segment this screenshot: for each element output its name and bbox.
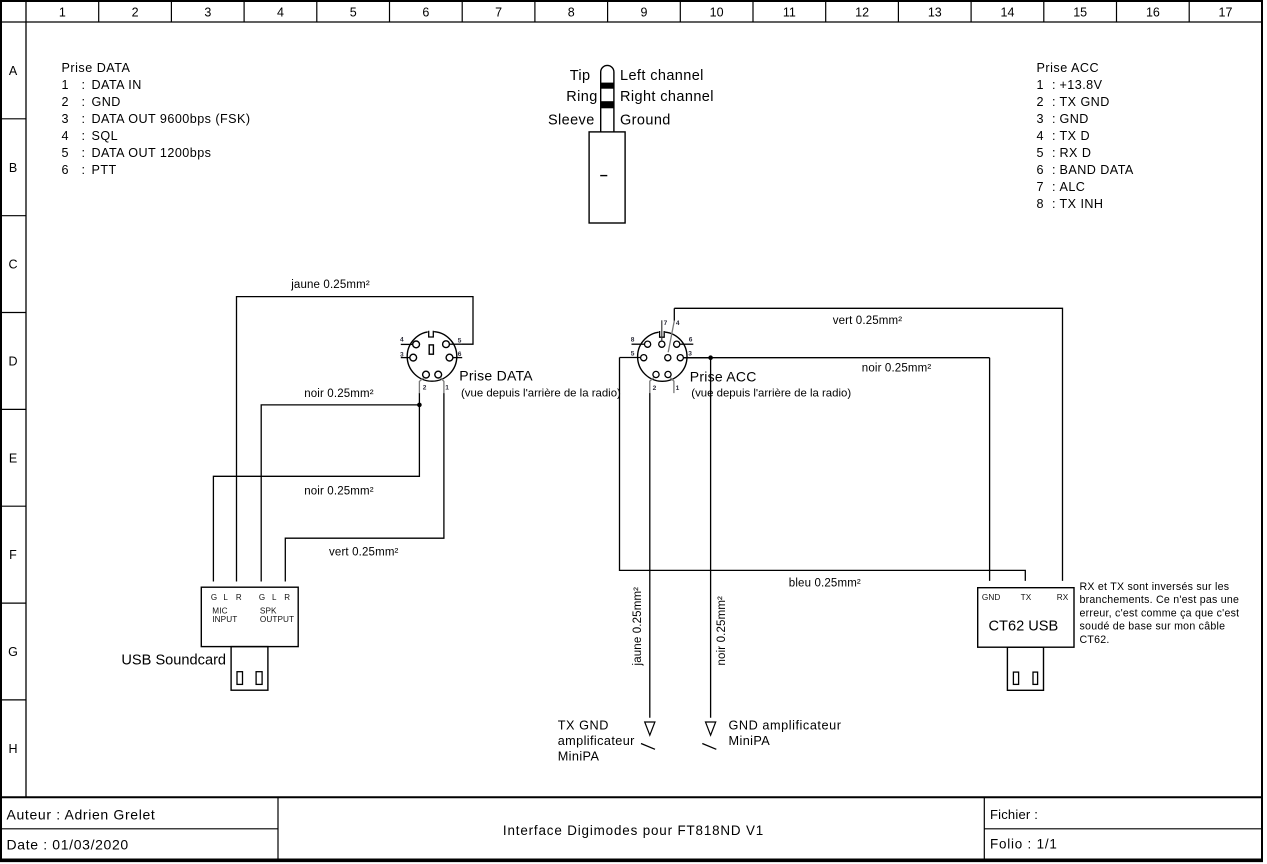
- svg-text:jaune 0.25mm²: jaune 0.25mm²: [290, 279, 370, 291]
- svg-text:RX: RX: [1057, 593, 1069, 602]
- svg-text:1: 1: [676, 385, 680, 392]
- svg-text:noir 0.25mm²: noir 0.25mm²: [304, 388, 374, 400]
- svg-text:7: 7: [664, 320, 668, 327]
- svg-text:8: 8: [568, 6, 575, 20]
- svg-text:2: 2: [653, 385, 657, 392]
- svg-text:5: 5: [350, 6, 357, 20]
- svg-text:13: 13: [928, 6, 942, 20]
- svg-text:Interface Digimodes pour FT818: Interface Digimodes pour FT818ND V1: [503, 823, 764, 838]
- svg-text:17: 17: [1219, 6, 1233, 20]
- svg-text:16: 16: [1146, 6, 1160, 20]
- svg-text:Sleeve: Sleeve: [548, 112, 595, 128]
- svg-text:D: D: [8, 355, 17, 369]
- svg-text:R: R: [236, 593, 242, 602]
- svg-text:G: G: [8, 645, 18, 659]
- svg-text:OUTPUT: OUTPUT: [260, 615, 294, 624]
- svg-text:Left channel: Left channel: [620, 68, 704, 84]
- svg-text:L: L: [223, 593, 228, 602]
- svg-text:5: 5: [631, 350, 635, 357]
- svg-text:vert 0.25mm²: vert 0.25mm²: [833, 315, 903, 327]
- svg-text:Fichier :: Fichier :: [990, 807, 1038, 822]
- svg-text:10: 10: [710, 6, 724, 20]
- svg-text:12: 12: [855, 6, 869, 20]
- svg-text:MiniPA: MiniPA: [729, 734, 771, 748]
- svg-text:11: 11: [783, 6, 796, 20]
- svg-text:2: 2: [132, 6, 139, 20]
- svg-text:bleu 0.25mm²: bleu 0.25mm²: [789, 578, 861, 590]
- svg-text:5: 5: [458, 337, 462, 344]
- svg-text:INPUT: INPUT: [212, 615, 237, 624]
- svg-text:CT62 USB: CT62 USB: [989, 618, 1059, 634]
- svg-text:7:ALC: 7:ALC: [1037, 180, 1086, 194]
- svg-text:4: 4: [277, 6, 284, 20]
- svg-text:C: C: [8, 258, 17, 272]
- svg-text:F: F: [9, 548, 17, 562]
- svg-text:8: 8: [631, 337, 635, 344]
- svg-text:noir 0.25mm²: noir 0.25mm²: [862, 362, 932, 374]
- svg-text:B: B: [9, 161, 17, 175]
- svg-text:noir 0.25mm²: noir 0.25mm²: [716, 596, 728, 666]
- svg-text:TX: TX: [1021, 593, 1032, 602]
- svg-text:amplificateur: amplificateur: [558, 734, 635, 748]
- svg-text:H: H: [8, 742, 17, 756]
- svg-text:15: 15: [1073, 6, 1087, 20]
- svg-text:6: 6: [689, 337, 693, 344]
- svg-text:Prise ACC: Prise ACC: [1037, 61, 1100, 75]
- svg-text:4: 4: [400, 337, 404, 344]
- svg-text:6:BAND DATA: 6:BAND DATA: [1037, 163, 1134, 177]
- svg-text:3: 3: [204, 6, 211, 20]
- svg-text:14: 14: [1001, 6, 1015, 20]
- svg-text:vert 0.25mm²: vert 0.25mm²: [329, 547, 399, 559]
- svg-text:erreur, c'est comme ça que c'e: erreur, c'est comme ça que c'est: [1080, 607, 1240, 619]
- svg-text:3: 3: [400, 352, 404, 359]
- svg-text:L: L: [272, 593, 277, 602]
- svg-text:noir 0.25mm²: noir 0.25mm²: [304, 486, 374, 498]
- svg-text:Prise DATA: Prise DATA: [62, 61, 131, 75]
- svg-text:R: R: [284, 593, 290, 602]
- svg-text:soudé de base sur mon câble: soudé de base sur mon câble: [1080, 621, 1226, 633]
- svg-text:MiniPA: MiniPA: [558, 750, 600, 764]
- svg-text:Right channel: Right channel: [620, 89, 714, 105]
- svg-text:Auteur : Adrien Grelet: Auteur : Adrien Grelet: [7, 807, 156, 823]
- svg-text:9: 9: [641, 6, 648, 20]
- svg-text:6: 6: [458, 351, 462, 358]
- svg-text:G: G: [259, 593, 265, 602]
- svg-text:CT62.: CT62.: [1080, 634, 1110, 646]
- svg-text:1: 1: [445, 385, 449, 392]
- svg-text:Ring: Ring: [566, 89, 597, 105]
- svg-text:Ground: Ground: [620, 112, 671, 128]
- svg-text:USB Soundcard: USB Soundcard: [121, 653, 226, 669]
- svg-text:RX et TX sont inversés sur les: RX et TX sont inversés sur les: [1080, 581, 1230, 593]
- svg-text:branchements. Ce n'est pas une: branchements. Ce n'est pas une: [1080, 594, 1240, 606]
- svg-text:GND: GND: [982, 593, 1001, 602]
- svg-text:7: 7: [495, 6, 502, 20]
- svg-text:G: G: [211, 593, 217, 602]
- svg-text:3: 3: [688, 350, 692, 357]
- svg-text:(vue depuis l'arrière de la ra: (vue depuis l'arrière de la radio): [461, 388, 621, 400]
- svg-text:Date : 01/03/2020: Date : 01/03/2020: [7, 837, 129, 853]
- svg-text:TX GND: TX GND: [558, 718, 609, 732]
- svg-text:SPK: SPK: [260, 606, 277, 615]
- svg-text:GND amplificateur: GND amplificateur: [729, 718, 842, 732]
- svg-text:Prise DATA: Prise DATA: [459, 368, 533, 384]
- svg-text:Tip: Tip: [570, 68, 591, 84]
- svg-text:2: 2: [423, 385, 427, 392]
- svg-text:1: 1: [59, 6, 66, 20]
- svg-text:5:DATA OUT 1200bps: 5:DATA OUT 1200bps: [62, 146, 212, 160]
- svg-text:Prise ACC: Prise ACC: [690, 369, 757, 385]
- svg-text:4: 4: [676, 320, 680, 327]
- svg-text:Folio : 1/1: Folio : 1/1: [990, 837, 1058, 852]
- svg-text:A: A: [9, 64, 18, 78]
- svg-text:E: E: [9, 451, 17, 465]
- svg-text:MIC: MIC: [212, 606, 227, 615]
- svg-text:6: 6: [422, 6, 429, 20]
- svg-text:jaune 0.25mm²: jaune 0.25mm²: [632, 587, 644, 667]
- svg-text:(vue depuis l'arrière de la ra: (vue depuis l'arrière de la radio): [691, 388, 851, 400]
